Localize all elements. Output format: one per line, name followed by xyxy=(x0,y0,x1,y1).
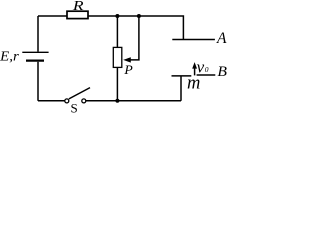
svg-text:P: P xyxy=(123,63,133,77)
svg-text:S: S xyxy=(71,101,78,115)
svg-text:v: v xyxy=(197,57,205,76)
svg-text:E,r: E,r xyxy=(0,49,19,64)
svg-text:R: R xyxy=(72,0,84,14)
svg-text:B: B xyxy=(217,64,227,80)
svg-text:A: A xyxy=(216,30,227,47)
svg-text:0: 0 xyxy=(205,65,209,74)
